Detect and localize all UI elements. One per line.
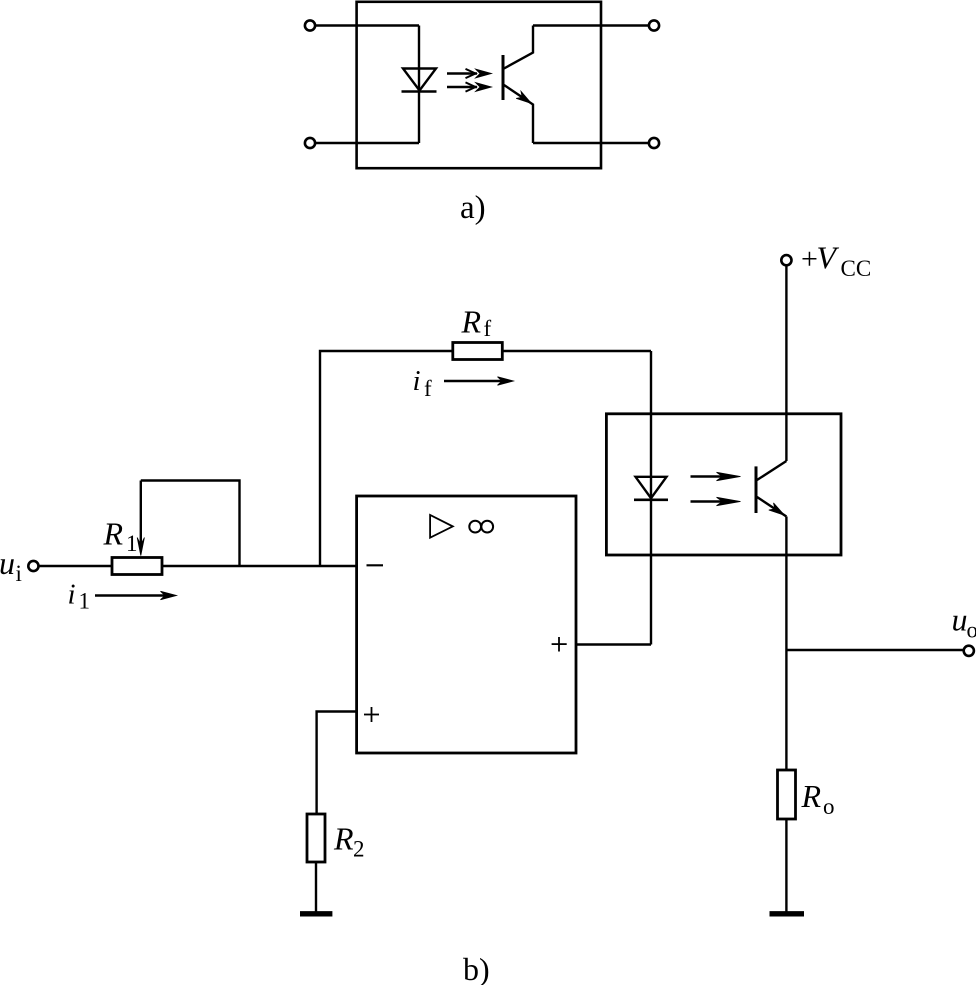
- svg-text:u: u: [952, 602, 968, 638]
- svg-text:i: i: [16, 561, 22, 586]
- svg-text:2: 2: [353, 836, 365, 861]
- svg-text:i: i: [68, 579, 76, 611]
- svg-text:o: o: [967, 618, 976, 643]
- svg-text:f: f: [484, 316, 492, 341]
- svg-text:1: 1: [79, 589, 91, 614]
- svg-text:CC: CC: [841, 256, 872, 281]
- svg-text:a): a): [460, 190, 486, 226]
- svg-text:+: +: [801, 243, 818, 276]
- svg-text:f: f: [424, 376, 432, 401]
- svg-text:R: R: [333, 821, 354, 857]
- svg-text:R: R: [461, 304, 482, 340]
- svg-text:u: u: [0, 545, 15, 581]
- svg-text:1: 1: [126, 531, 138, 556]
- svg-text:o: o: [823, 794, 835, 819]
- svg-text:b): b): [463, 951, 490, 985]
- svg-text:R: R: [801, 778, 822, 814]
- svg-text:R: R: [103, 515, 124, 551]
- svg-text:i: i: [413, 365, 421, 397]
